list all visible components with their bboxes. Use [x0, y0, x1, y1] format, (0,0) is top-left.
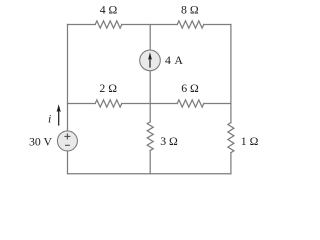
svg-text:8 Ω: 8 Ω	[181, 2, 199, 16]
svg-text:1 Ω: 1 Ω	[241, 134, 259, 148]
wire left vertical upper segment	[67, 25, 69, 131]
current source I1 arrow	[148, 52, 152, 67]
svg-text:30 V: 30 V	[29, 134, 53, 148]
svg-text:2 Ω: 2 Ω	[99, 81, 117, 95]
voltage source V1 minus sign	[65, 144, 70, 146]
wire right vertical lower segment	[230, 153, 232, 174]
voltage source V1 30V circle	[57, 131, 77, 151]
svg-text:i: i	[48, 111, 51, 125]
wire middle horizontal center segment	[122, 103, 177, 105]
wire middle horizontal left segment	[68, 103, 96, 105]
current i direction arrow	[57, 104, 61, 125]
resistor R 4ohm zigzag	[95, 21, 122, 28]
wire left vertical lower segment	[67, 151, 69, 174]
svg-text:3 Ω: 3 Ω	[160, 134, 178, 148]
wire middle branch between current source and middle wire	[149, 71, 151, 122]
resistor R 8ohm zigzag	[177, 21, 204, 28]
resistor R 6ohm zigzag	[177, 100, 204, 107]
wire middle branch bottom segment	[149, 151, 151, 174]
svg-text:6 Ω: 6 Ω	[181, 81, 199, 95]
wire right vertical upper segment	[230, 25, 232, 123]
wire top-left horizontal segment	[68, 24, 96, 26]
voltage source V1 plus sign	[64, 133, 70, 139]
svg-text:4 Ω: 4 Ω	[100, 2, 118, 16]
resistor R 1ohm zigzag	[228, 123, 234, 153]
wire top-right horizontal segment	[204, 24, 231, 26]
wire middle branch top segment	[149, 25, 151, 51]
svg-text:4 A: 4 A	[165, 53, 183, 67]
current source I1 4A circle	[140, 50, 161, 71]
wire middle horizontal right segment	[204, 103, 231, 105]
wire top-middle horizontal segment	[122, 24, 177, 26]
resistor R 3ohm zigzag	[147, 122, 153, 151]
wire bottom horizontal	[68, 173, 231, 175]
resistor R 2ohm zigzag	[95, 100, 122, 107]
